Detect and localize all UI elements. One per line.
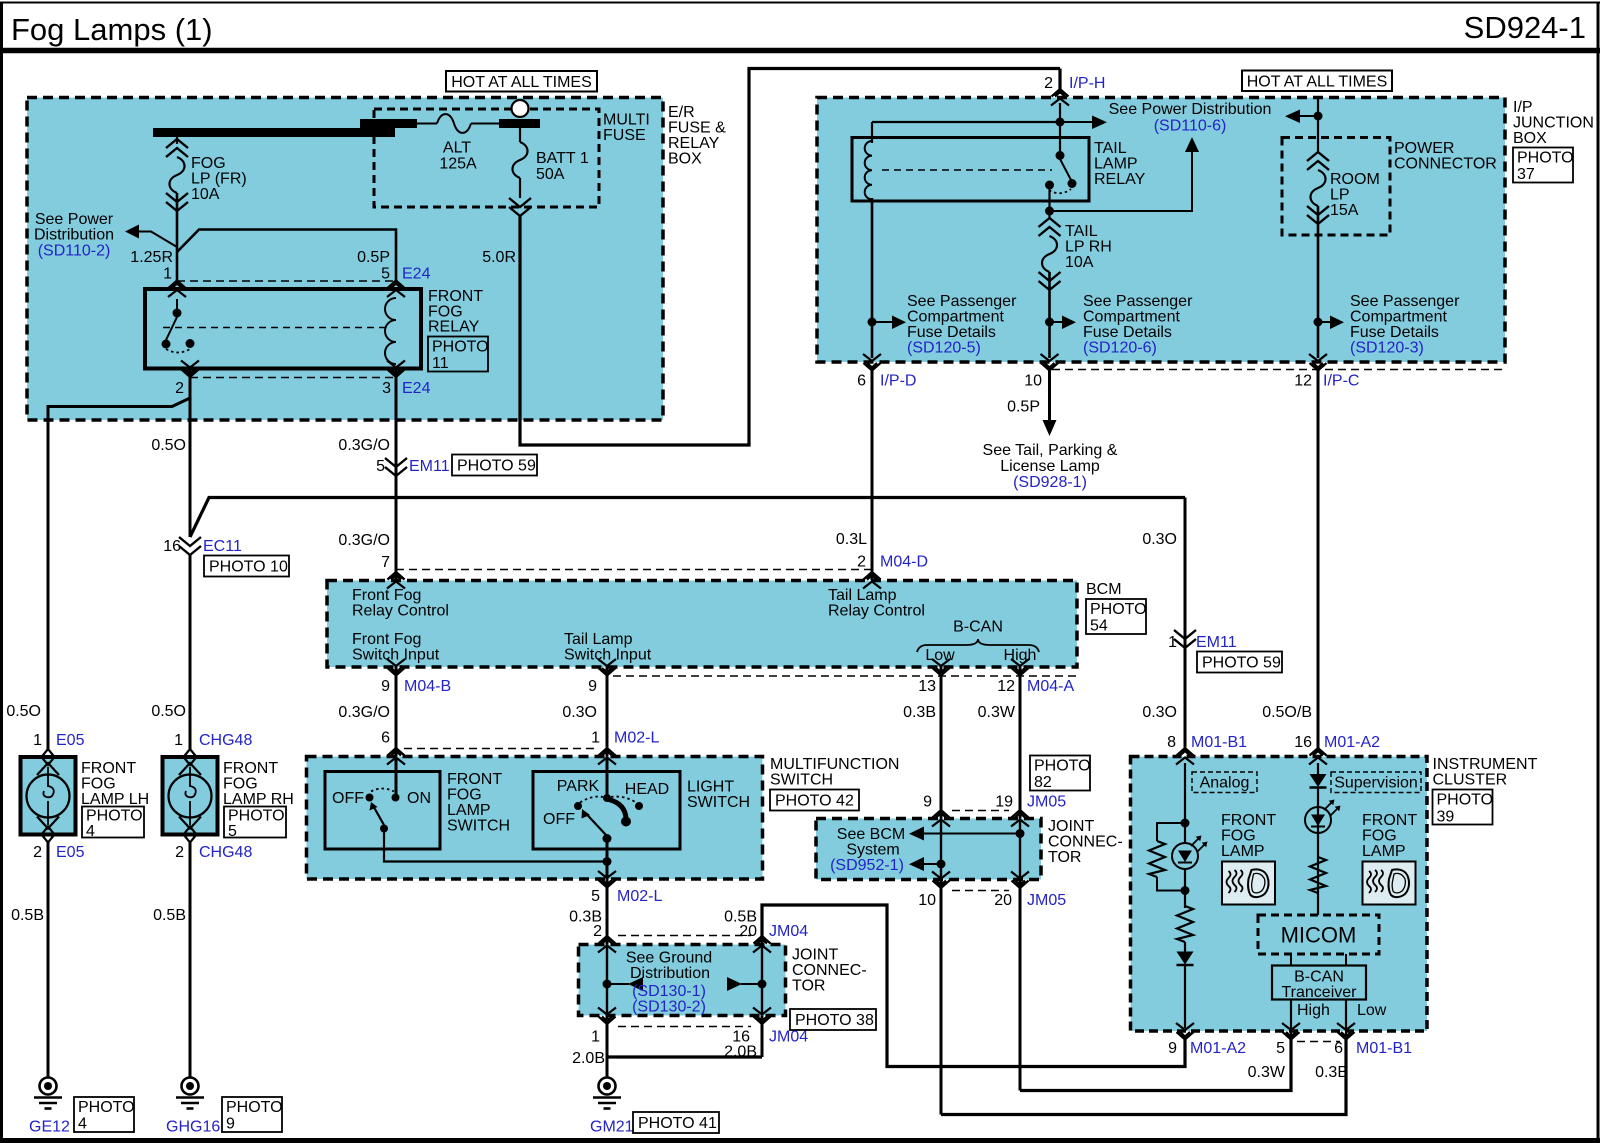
svg-text:JOINT: JOINT (792, 947, 838, 964)
svg-text:3: 3 (382, 380, 391, 397)
svg-text:FRONT: FRONT (1362, 812, 1417, 829)
svg-text:FOG: FOG (81, 776, 116, 793)
svg-text:INSTRUMENT: INSTRUMENT (1433, 756, 1538, 773)
svg-text:E/R: E/R (668, 104, 695, 121)
svg-text:FOG: FOG (191, 155, 226, 172)
svg-text:LP RH: LP RH (1065, 239, 1112, 256)
svg-text:Tranceiver: Tranceiver (1282, 984, 1358, 1001)
svg-text:9: 9 (226, 1116, 235, 1133)
svg-text:Fuse Details: Fuse Details (1350, 324, 1439, 341)
svg-text:1.25R: 1.25R (130, 249, 173, 266)
svg-text:RELAY: RELAY (668, 135, 720, 152)
svg-text:5: 5 (591, 888, 600, 905)
svg-text:See Ground: See Ground (626, 950, 712, 967)
svg-text:5: 5 (1276, 1040, 1285, 1057)
svg-text:2: 2 (857, 554, 866, 571)
svg-text:20: 20 (994, 892, 1012, 909)
svg-text:ON: ON (407, 790, 431, 807)
svg-text:16: 16 (1294, 734, 1312, 751)
svg-text:JOINT: JOINT (1048, 818, 1094, 835)
svg-text:System: System (846, 842, 899, 859)
svg-text:4: 4 (78, 1116, 87, 1133)
svg-text:PHOTO 59: PHOTO 59 (457, 458, 536, 475)
svg-text:E05: E05 (56, 732, 85, 749)
svg-text:LP: LP (1330, 187, 1350, 204)
svg-text:Distribution: Distribution (630, 965, 710, 982)
svg-text:B-CAN: B-CAN (953, 619, 1003, 636)
svg-text:(SD120-5): (SD120-5) (907, 340, 981, 357)
svg-text:9: 9 (923, 794, 932, 811)
svg-text:PHOTO: PHOTO (1034, 758, 1091, 775)
svg-text:TAIL: TAIL (1094, 140, 1127, 157)
svg-text:0.3G/O: 0.3G/O (338, 532, 390, 549)
svg-text:1: 1 (591, 730, 600, 747)
svg-text:FRONT: FRONT (1221, 812, 1276, 829)
svg-text:0.5P: 0.5P (1007, 399, 1040, 416)
svg-text:5.0R: 5.0R (482, 249, 516, 266)
svg-text:I/P: I/P (1513, 99, 1533, 116)
svg-text:MICOM: MICOM (1281, 923, 1357, 948)
svg-text:E05: E05 (56, 844, 85, 861)
svg-text:2: 2 (593, 923, 602, 940)
svg-text:SWITCH: SWITCH (447, 818, 510, 835)
svg-text:JUNCTION: JUNCTION (1513, 115, 1594, 132)
svg-text:ROOM: ROOM (1330, 171, 1380, 188)
svg-text:LP (FR): LP (FR) (191, 171, 247, 188)
svg-text:MULTI: MULTI (603, 112, 650, 129)
svg-text:0.3L: 0.3L (836, 531, 867, 548)
svg-text:TOR: TOR (792, 978, 825, 995)
svg-text:SWITCH: SWITCH (687, 794, 750, 811)
svg-text:10A: 10A (1065, 254, 1094, 271)
svg-text:PHOTO: PHOTO (228, 808, 285, 825)
svg-text:M02-L: M02-L (617, 888, 662, 905)
svg-text:See Passenger: See Passenger (1350, 293, 1460, 310)
svg-text:82: 82 (1034, 774, 1052, 791)
svg-text:PHOTO: PHOTO (226, 1099, 283, 1116)
svg-text:Compartment: Compartment (1350, 309, 1447, 326)
svg-text:4: 4 (86, 823, 95, 840)
svg-text:FRONT: FRONT (447, 771, 502, 788)
svg-text:1: 1 (591, 1029, 600, 1046)
svg-text:M04-B: M04-B (404, 678, 451, 695)
svg-text:(SD110-2): (SD110-2) (38, 243, 111, 260)
svg-text:M04-D: M04-D (880, 554, 928, 571)
svg-text:PHOTO: PHOTO (1437, 792, 1494, 809)
svg-text:E24: E24 (402, 266, 431, 283)
svg-text:FOG: FOG (1221, 828, 1256, 845)
svg-text:2: 2 (175, 380, 184, 397)
svg-text:Compartment: Compartment (1083, 309, 1180, 326)
svg-text:B-CAN: B-CAN (1294, 969, 1344, 986)
svg-text:1: 1 (163, 266, 172, 283)
svg-text:Relay Control: Relay Control (352, 603, 449, 620)
svg-text:Switch Input: Switch Input (564, 647, 652, 664)
svg-text:1: 1 (174, 732, 183, 749)
svg-text:2: 2 (1044, 75, 1053, 92)
svg-text:0.5B: 0.5B (11, 907, 44, 924)
svg-text:FUSE &: FUSE & (668, 120, 726, 137)
svg-text:PHOTO: PHOTO (1517, 150, 1574, 167)
svg-text:0.3B: 0.3B (1315, 1064, 1348, 1081)
svg-text:Supervision: Supervision (1334, 775, 1418, 792)
svg-text:10: 10 (1024, 373, 1042, 390)
svg-text:6: 6 (1334, 1040, 1343, 1057)
svg-text:0.3W: 0.3W (1248, 1064, 1286, 1081)
svg-text:(SD130-1): (SD130-1) (632, 983, 706, 1000)
svg-text:M01-A2: M01-A2 (1324, 734, 1380, 751)
svg-text:Front Fog: Front Fog (352, 587, 421, 604)
svg-text:GHG16: GHG16 (166, 1119, 220, 1136)
svg-text:PHOTO 38: PHOTO 38 (795, 1012, 874, 1029)
svg-text:POWER: POWER (1394, 140, 1454, 157)
svg-text:See BCM: See BCM (837, 826, 905, 843)
svg-text:HEAD: HEAD (625, 781, 669, 798)
svg-text:GE12: GE12 (29, 1119, 70, 1136)
svg-text:2.0B: 2.0B (572, 1050, 605, 1067)
svg-text:16: 16 (163, 538, 181, 555)
svg-text:FRONT: FRONT (81, 760, 136, 777)
svg-text:GM21: GM21 (590, 1119, 634, 1136)
svg-text:39: 39 (1437, 809, 1455, 826)
svg-text:9: 9 (588, 678, 597, 695)
svg-text:LAMP LH: LAMP LH (81, 791, 149, 808)
svg-text:SWITCH: SWITCH (770, 772, 833, 789)
svg-text:E24: E24 (402, 380, 431, 397)
svg-text:9: 9 (381, 678, 390, 695)
svg-text:FRONT: FRONT (223, 760, 278, 777)
svg-text:BOX: BOX (1513, 130, 1547, 147)
svg-text:EM11: EM11 (1196, 634, 1237, 651)
svg-text:7: 7 (381, 554, 390, 571)
svg-text:LAMP: LAMP (1362, 843, 1406, 860)
svg-text:LIGHT: LIGHT (687, 779, 734, 796)
svg-text:JM04: JM04 (769, 1029, 808, 1046)
svg-text:See Power: See Power (35, 211, 114, 228)
svg-text:12: 12 (997, 678, 1015, 695)
svg-text:0.5O: 0.5O (6, 703, 41, 720)
svg-text:0.3G/O: 0.3G/O (338, 437, 390, 454)
svg-text:High: High (1004, 647, 1037, 664)
svg-text:M01-B1: M01-B1 (1191, 734, 1247, 751)
svg-text:Tail Lamp: Tail Lamp (828, 587, 897, 604)
svg-text:12: 12 (1294, 373, 1312, 390)
svg-text:JM05: JM05 (1027, 794, 1066, 811)
svg-text:JM04: JM04 (769, 923, 808, 940)
svg-text:PHOTO 41: PHOTO 41 (638, 1115, 717, 1132)
svg-text:(SD928-1): (SD928-1) (1013, 474, 1087, 491)
svg-text:0.5O: 0.5O (151, 703, 186, 720)
svg-text:TOR: TOR (1048, 849, 1081, 866)
svg-text:0.3G/O: 0.3G/O (338, 704, 390, 721)
svg-text:Front Fog: Front Fog (352, 631, 421, 648)
svg-text:5: 5 (228, 823, 237, 840)
svg-text:19: 19 (995, 794, 1013, 811)
svg-text:ALT: ALT (443, 140, 471, 157)
svg-text:PHOTO 10: PHOTO 10 (209, 559, 288, 576)
svg-text:OFF: OFF (332, 790, 364, 807)
svg-text:6: 6 (381, 730, 390, 747)
svg-text:EC11: EC11 (203, 538, 242, 555)
svg-text:(SD952-1): (SD952-1) (830, 857, 904, 874)
svg-text:M01-A2: M01-A2 (1190, 1040, 1246, 1057)
svg-text:0.3O: 0.3O (1142, 704, 1177, 721)
svg-text:50A: 50A (536, 166, 565, 183)
svg-text:CONNECTOR: CONNECTOR (1394, 156, 1497, 173)
svg-text:20: 20 (739, 923, 757, 940)
svg-text:54: 54 (1090, 618, 1108, 635)
svg-text:RELAY: RELAY (1094, 171, 1146, 188)
svg-text:125A: 125A (439, 156, 477, 173)
svg-text:Compartment: Compartment (907, 309, 1004, 326)
svg-text:5: 5 (376, 458, 385, 475)
svg-text:CLUSTER: CLUSTER (1433, 772, 1508, 789)
svg-text:BCM: BCM (1086, 581, 1122, 598)
svg-text:PHOTO: PHOTO (86, 808, 143, 825)
svg-text:See Passenger: See Passenger (907, 293, 1017, 310)
svg-text:Fuse Details: Fuse Details (907, 324, 996, 341)
svg-text:1: 1 (1168, 634, 1177, 651)
svg-text:37: 37 (1517, 166, 1535, 183)
svg-text:9: 9 (1168, 1040, 1177, 1057)
svg-text:LAMP: LAMP (1094, 156, 1138, 173)
svg-text:See Passenger: See Passenger (1083, 293, 1193, 310)
svg-text:Distribution: Distribution (34, 227, 114, 244)
svg-text:I/P-C: I/P-C (1323, 373, 1359, 390)
svg-text:13: 13 (918, 678, 936, 695)
svg-text:High: High (1297, 1002, 1330, 1019)
svg-text:Fog Lamps (1): Fog Lamps (1) (11, 12, 213, 47)
svg-text:(SD130-2): (SD130-2) (632, 999, 706, 1016)
svg-text:HOT AT ALL TIMES: HOT AT ALL TIMES (451, 74, 592, 91)
svg-text:PHOTO 59: PHOTO 59 (1202, 655, 1281, 672)
svg-text:CHG48: CHG48 (199, 844, 252, 861)
svg-text:Tail Lamp: Tail Lamp (564, 631, 633, 648)
svg-text:M04-A: M04-A (1027, 678, 1074, 695)
svg-text:CHG48: CHG48 (199, 732, 252, 749)
svg-text:TAIL: TAIL (1065, 223, 1098, 240)
svg-text:BOX: BOX (668, 151, 702, 168)
svg-text:PHOTO: PHOTO (432, 339, 489, 356)
svg-text:M02-L: M02-L (614, 730, 659, 747)
svg-text:See Power Distribution: See Power Distribution (1109, 101, 1272, 118)
svg-text:PHOTO: PHOTO (1090, 601, 1147, 618)
svg-text:M01-B1: M01-B1 (1356, 1040, 1412, 1057)
svg-text:Analog: Analog (1200, 775, 1250, 792)
svg-text:10: 10 (918, 892, 936, 909)
svg-text:0.3B: 0.3B (903, 704, 936, 721)
svg-text:JM05: JM05 (1027, 892, 1066, 909)
svg-text:0.3O: 0.3O (562, 704, 597, 721)
svg-text:6: 6 (857, 373, 866, 390)
svg-text:License Lamp: License Lamp (1000, 458, 1100, 475)
svg-text:0.3W: 0.3W (978, 704, 1016, 721)
svg-text:LAMP: LAMP (1221, 843, 1265, 860)
svg-text:RELAY: RELAY (428, 319, 480, 336)
svg-text:HOT AT ALL TIMES: HOT AT ALL TIMES (1247, 74, 1388, 91)
svg-text:See Tail, Parking &: See Tail, Parking & (983, 442, 1118, 459)
svg-text:11: 11 (432, 355, 449, 372)
svg-text:FOG: FOG (223, 776, 258, 793)
svg-text:0.5O/B: 0.5O/B (1262, 704, 1312, 721)
svg-text:0.3O: 0.3O (1142, 531, 1177, 548)
svg-text:8: 8 (1167, 734, 1176, 751)
svg-text:PARK: PARK (557, 778, 600, 795)
svg-text:LAMP RH: LAMP RH (223, 791, 294, 808)
svg-text:LAMP: LAMP (447, 802, 491, 819)
svg-text:BATT 1: BATT 1 (536, 150, 589, 167)
svg-text:Fuse Details: Fuse Details (1083, 324, 1172, 341)
svg-text:I/P-D: I/P-D (880, 373, 916, 390)
svg-text:(SD120-6): (SD120-6) (1083, 340, 1157, 357)
svg-text:FOG: FOG (447, 787, 482, 804)
svg-text:2: 2 (33, 844, 42, 861)
svg-text:CONNEC-: CONNEC- (1048, 834, 1123, 851)
svg-text:I/P-H: I/P-H (1069, 75, 1105, 92)
svg-text:PHOTO 42: PHOTO 42 (775, 793, 854, 810)
svg-text:Low: Low (925, 647, 955, 664)
svg-text:Switch Input: Switch Input (352, 647, 440, 664)
svg-text:EM11: EM11 (409, 458, 450, 475)
svg-text:FUSE: FUSE (603, 127, 646, 144)
svg-text:15A: 15A (1330, 202, 1359, 219)
svg-text:CONNEC-: CONNEC- (792, 962, 867, 979)
svg-text:SD924-1: SD924-1 (1464, 10, 1586, 45)
svg-text:OFF: OFF (543, 811, 575, 828)
svg-text:FOG: FOG (1362, 828, 1397, 845)
svg-text:MULTIFUNCTION: MULTIFUNCTION (770, 756, 899, 773)
svg-text:Low: Low (1357, 1002, 1387, 1019)
svg-text:0.5O: 0.5O (151, 437, 186, 454)
svg-text:(SD120-3): (SD120-3) (1350, 340, 1424, 357)
svg-text:2: 2 (175, 844, 184, 861)
svg-text:(SD110-6): (SD110-6) (1154, 118, 1227, 135)
svg-text:0.5B: 0.5B (153, 907, 186, 924)
svg-text:10A: 10A (191, 186, 220, 203)
svg-text:0.5P: 0.5P (357, 249, 390, 266)
svg-text:PHOTO: PHOTO (78, 1099, 135, 1116)
svg-text:FRONT: FRONT (428, 288, 483, 305)
svg-text:1: 1 (33, 732, 42, 749)
svg-text:5: 5 (381, 266, 390, 283)
svg-text:Relay Control: Relay Control (828, 603, 925, 620)
